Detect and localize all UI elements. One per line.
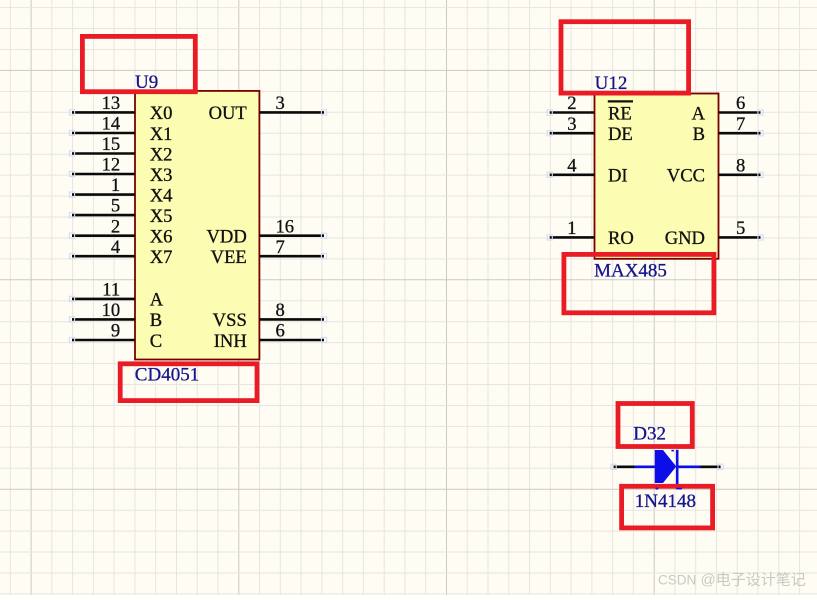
svg-text:X1: X1 — [150, 124, 173, 145]
svg-text:1: 1 — [567, 218, 576, 239]
svg-text:GND: GND — [665, 228, 705, 249]
svg-text:3: 3 — [276, 93, 285, 114]
svg-text:INH: INH — [214, 331, 247, 352]
svg-text:CSDN@电子设计笔记: CSDN@电子设计笔记 — [658, 572, 806, 589]
svg-text:16: 16 — [276, 216, 295, 237]
svg-text:X5: X5 — [150, 206, 173, 227]
svg-text:5: 5 — [111, 196, 120, 217]
svg-text:A: A — [150, 290, 164, 311]
svg-text:DI: DI — [608, 166, 628, 187]
svg-text:MAX485: MAX485 — [594, 260, 667, 281]
svg-text:5: 5 — [736, 218, 745, 239]
svg-text:1N4148: 1N4148 — [635, 491, 696, 512]
svg-text:A: A — [692, 103, 706, 124]
svg-text:10: 10 — [102, 300, 121, 321]
svg-text:B: B — [150, 310, 162, 331]
svg-text:X2: X2 — [150, 144, 173, 165]
svg-text:3: 3 — [567, 114, 576, 135]
svg-text:1: 1 — [111, 175, 120, 196]
svg-text:VSS: VSS — [213, 310, 247, 331]
svg-text:15: 15 — [102, 134, 121, 155]
svg-text:8: 8 — [276, 300, 285, 321]
svg-text:RE: RE — [608, 103, 632, 124]
svg-text:RO: RO — [608, 228, 634, 249]
svg-text:14: 14 — [102, 114, 121, 135]
svg-text:X4: X4 — [150, 185, 173, 206]
svg-text:8: 8 — [736, 155, 745, 176]
svg-text:VEE: VEE — [211, 247, 247, 268]
svg-text:OUT: OUT — [209, 103, 248, 124]
svg-text:X3: X3 — [150, 165, 173, 186]
svg-text:DE: DE — [608, 124, 633, 145]
svg-text:11: 11 — [102, 280, 120, 301]
svg-text:C: C — [150, 331, 162, 352]
svg-text:2: 2 — [567, 93, 576, 114]
svg-text:CD4051: CD4051 — [135, 365, 199, 386]
svg-text:4: 4 — [111, 237, 120, 258]
svg-text:VDD: VDD — [207, 227, 247, 248]
svg-text:9: 9 — [111, 321, 120, 342]
svg-text:X6: X6 — [150, 227, 173, 248]
svg-text:X7: X7 — [150, 247, 173, 268]
svg-text:D32: D32 — [633, 423, 666, 444]
svg-text:7: 7 — [736, 114, 745, 135]
svg-text:2: 2 — [111, 216, 120, 237]
svg-text:B: B — [693, 124, 705, 145]
svg-text:12: 12 — [102, 155, 121, 176]
svg-text:6: 6 — [736, 93, 745, 114]
svg-text:X0: X0 — [150, 103, 173, 124]
svg-text:VCC: VCC — [667, 166, 705, 187]
svg-text:7: 7 — [276, 237, 285, 258]
svg-text:4: 4 — [567, 155, 576, 176]
svg-text:13: 13 — [102, 93, 121, 114]
svg-text:6: 6 — [276, 321, 285, 342]
